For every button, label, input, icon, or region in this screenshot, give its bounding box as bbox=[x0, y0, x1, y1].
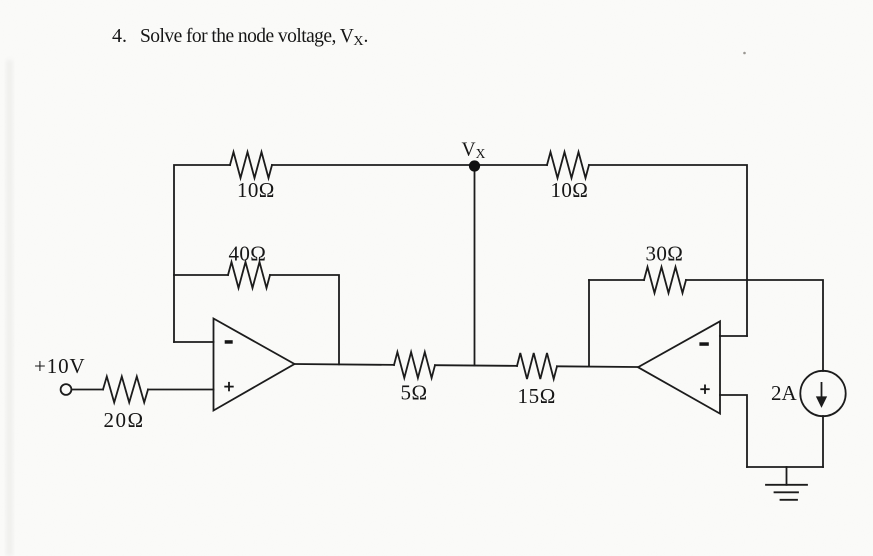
resistor R 10ohm top-right bbox=[547, 152, 589, 178]
wire top mid to Vx and to right resistor bbox=[272, 164, 547, 166]
node Vx vertical wire bbox=[474, 165, 476, 366]
op-amp U1 minus sign bbox=[225, 340, 233, 344]
resistor R 20ohm bbox=[103, 377, 148, 403]
current source arrow bbox=[817, 382, 825, 406]
svg-text:+10V: +10V bbox=[34, 354, 86, 378]
wire U1 output bbox=[295, 363, 395, 366]
wire bottom rail bbox=[747, 466, 823, 468]
wire minus input U1 bbox=[174, 341, 214, 343]
svg-text:15Ω: 15Ω bbox=[518, 384, 556, 408]
current source I1 circle bbox=[800, 371, 845, 416]
resistor R 10ohm top-left bbox=[230, 152, 272, 178]
svg-text:Solve for the node voltage, VX: Solve for the node voltage, VX. bbox=[140, 26, 368, 49]
wire plus input U1 from terminal bbox=[72, 389, 104, 391]
wire top-right corner down to minus input of U2 bbox=[589, 165, 747, 336]
op-amp U1 plus sign bbox=[224, 382, 233, 391]
op-amp U2 plus sign bbox=[700, 385, 709, 394]
ground stub bbox=[786, 467, 788, 485]
wire 5ohm to 15ohm bbox=[435, 364, 517, 367]
wire 40ohm right leg down to output bbox=[270, 275, 339, 364]
svg-text:4.: 4. bbox=[112, 25, 127, 47]
wire 30ohm right to current source top bbox=[686, 280, 823, 371]
svg-text:10Ω: 10Ω bbox=[551, 178, 589, 202]
op-amp U2 triangle (mirrored) bbox=[638, 321, 720, 413]
wire 40ohm left leg bbox=[174, 274, 228, 276]
svg-text:40Ω: 40Ω bbox=[229, 242, 267, 266]
ground bar 2 bbox=[775, 491, 799, 493]
wire 20ohm to U1 plus bbox=[148, 389, 214, 391]
wire 15ohm to U2 output apex bbox=[557, 365, 638, 368]
wire 30ohm left leg down to output bbox=[588, 280, 590, 367]
resistor R 40ohm bbox=[228, 262, 270, 288]
resistor R 5ohm bbox=[394, 352, 435, 378]
wire plus input U2 down to ground rail bbox=[720, 395, 747, 467]
wire current source bottom bbox=[822, 416, 824, 467]
op-amp U2 minus sign bbox=[699, 342, 708, 346]
resistor R 15ohm bbox=[517, 353, 557, 379]
svg-text:10Ω: 10Ω bbox=[237, 178, 275, 202]
svg-text:5Ω: 5Ω bbox=[401, 381, 428, 405]
terminal open circle +10V bbox=[61, 384, 72, 395]
node Vx junction dot bbox=[469, 160, 480, 171]
ground bar 1 bbox=[766, 484, 807, 486]
wire minus input U2 bbox=[720, 335, 747, 337]
resistor R 30ohm bbox=[644, 267, 686, 293]
svg-text:20Ω: 20Ω bbox=[104, 408, 145, 432]
svg-text:2A: 2A bbox=[771, 381, 798, 405]
scan speck artifact bbox=[743, 52, 746, 55]
svg-text:30Ω: 30Ω bbox=[646, 242, 684, 266]
ground bar 3 bbox=[781, 499, 798, 501]
op-amp U1 triangle bbox=[214, 319, 295, 411]
wire top-left horizontal bbox=[174, 165, 230, 342]
wire 30ohm left horizontal bbox=[589, 279, 644, 281]
